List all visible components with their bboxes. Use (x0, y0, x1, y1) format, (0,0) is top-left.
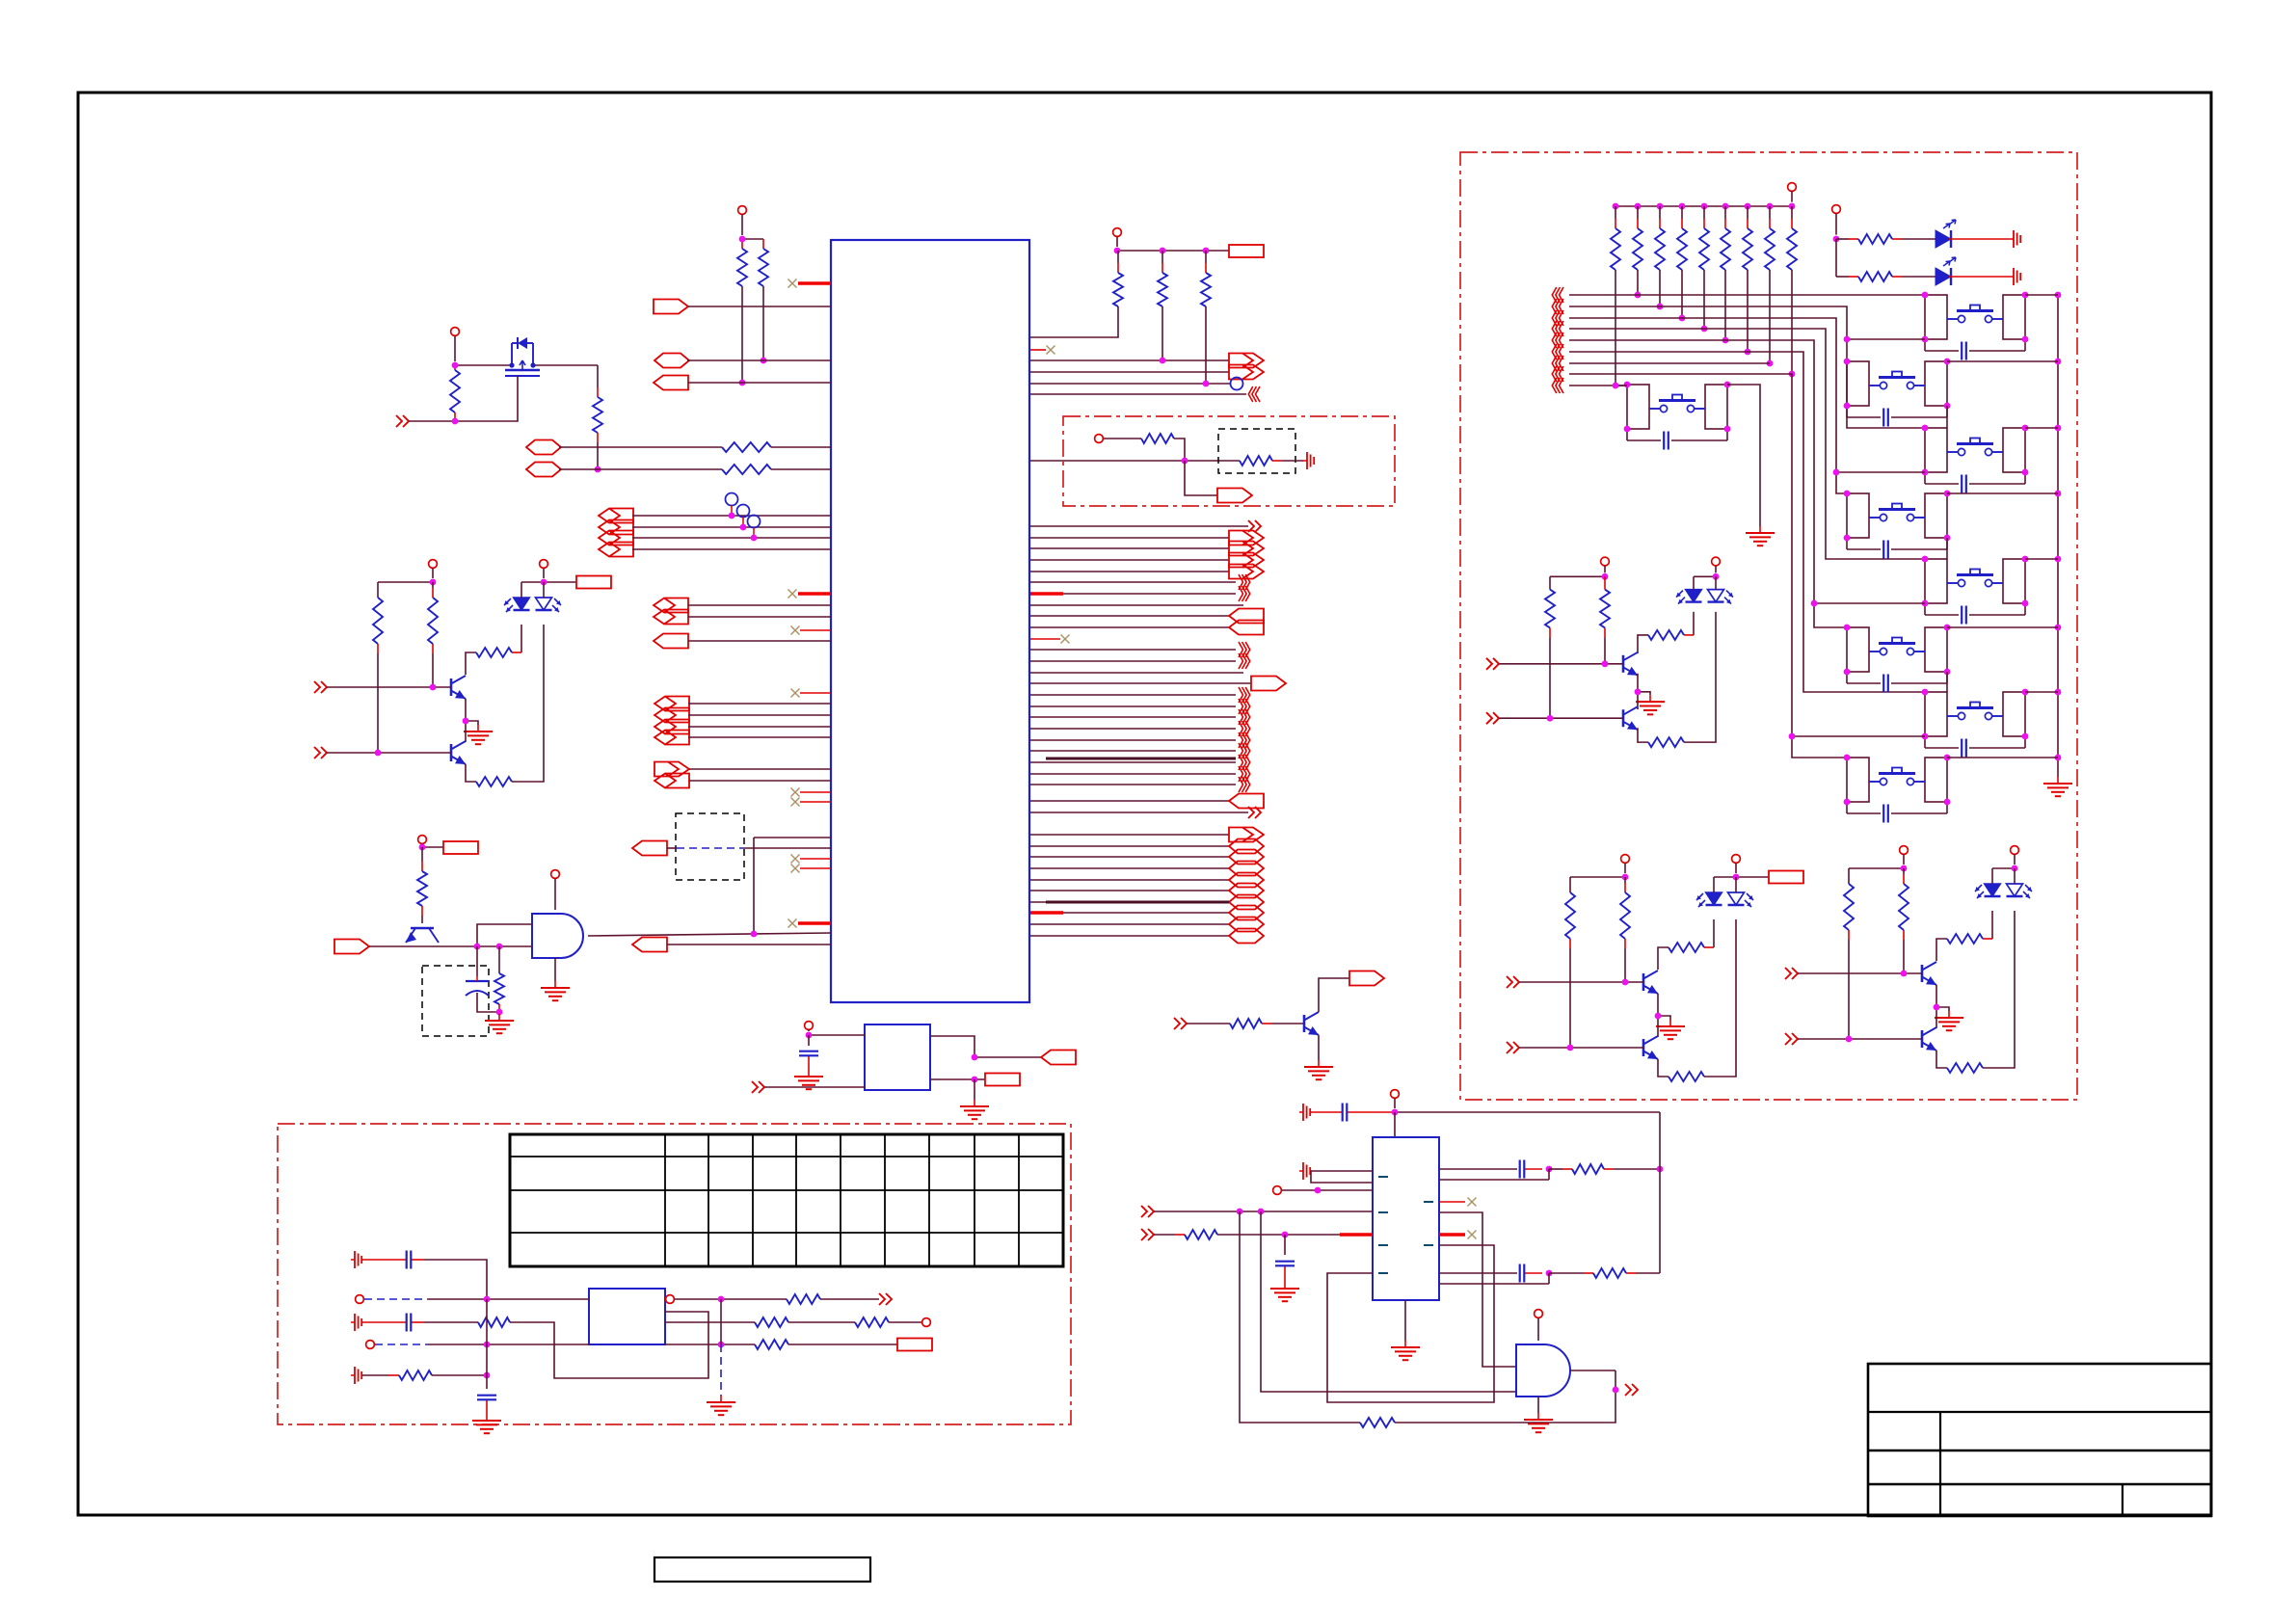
connector J27 (1229, 553, 1264, 568)
ground GND3 (1656, 1020, 1685, 1039)
wire row535 (632, 515, 831, 517)
resistor R15 (1565, 892, 1575, 1048)
resistor R28 (1141, 434, 1174, 443)
wire row374r (1030, 359, 1229, 361)
wire drv c2 (465, 721, 467, 742)
pin stub thick NC (798, 592, 831, 595)
connector J34 (1229, 839, 1264, 854)
wire rcol3 (1205, 306, 1207, 384)
wire drv emit1 (1658, 994, 1670, 1020)
no-connect X (1061, 635, 1070, 644)
wire r698 (1030, 672, 1243, 674)
connector J38 (1229, 884, 1264, 898)
wire mute a (1104, 438, 1141, 439)
wire drv left col (1549, 576, 1551, 589)
wire gate2 gnd (1537, 1397, 1539, 1413)
ground GND13 (1391, 1341, 1420, 1360)
ground GND1 (464, 725, 493, 744)
capacitor C2 (362, 1251, 424, 1269)
wire cell-cap link (1847, 802, 1947, 813)
AND gate U2 (1516, 1344, 1570, 1397)
capacitor C7 (1520, 1160, 1542, 1179)
wire r901 (1030, 867, 1229, 869)
capacitor C6 (1275, 1262, 1295, 1282)
wire drv left col (1569, 877, 1571, 892)
wire G in-top (809, 1034, 865, 1036)
pin stub NC (800, 858, 831, 860)
connector J24 (1217, 489, 1252, 503)
bus-entry B21 (1552, 356, 1563, 371)
table connector pinout (510, 1134, 1063, 1266)
wire m busrow8 (1569, 374, 1847, 758)
ground GND14 (1524, 1413, 1553, 1432)
wire m busrow9 (1569, 385, 1627, 386)
resistor R46 (1721, 206, 1730, 270)
wire drv col seg (466, 652, 476, 675)
wire gate out (588, 933, 831, 936)
ground AGND5 (1299, 1104, 1310, 1121)
no-connect X (791, 798, 800, 807)
resistor R40 (1360, 1418, 1395, 1427)
transistor Q2 (451, 741, 466, 764)
connector J18 (654, 774, 689, 788)
wire drv top-l (378, 581, 433, 583)
junction drv in (1846, 971, 1908, 1043)
resistor R38 (1549, 1164, 1660, 1174)
wire rcol1 (1030, 306, 1118, 337)
port P5 (1486, 712, 1499, 724)
bus-entry B17 (1552, 310, 1563, 326)
junction m bus (1613, 203, 1796, 210)
wire r639 (1030, 615, 1229, 617)
wire m busrow6 (1569, 352, 1925, 692)
ground GND9 (472, 1414, 501, 1433)
junction dots cell (1922, 425, 2029, 476)
wire HD (428, 1344, 589, 1345)
junction dots cell (1844, 491, 1951, 542)
stub circle (731, 506, 733, 517)
wire pin row 318 (688, 306, 831, 307)
connector J30 (1229, 621, 1264, 635)
connector J33 (1229, 828, 1264, 842)
wire row487b (771, 468, 831, 470)
bus-entry B18 (1552, 321, 1563, 336)
pin stub thick NC (798, 921, 831, 924)
connector J44 (1349, 971, 1384, 986)
wire m busrow4 (1569, 329, 1925, 559)
pin stub NC (800, 692, 831, 694)
wire S0 row link (1615, 385, 1627, 386)
net-label NL5 (985, 1074, 1020, 1086)
wire row765 (688, 736, 831, 738)
wire cell-cap link (1925, 603, 2025, 615)
no-connect X (791, 865, 800, 873)
ground AGND1 (1303, 452, 1314, 469)
wire r959 (1030, 923, 1229, 925)
DNP dashed box (676, 813, 744, 880)
wire S0 gnd link (1727, 385, 1760, 526)
wire mled v (1835, 239, 1837, 277)
wire cell-cap link (1847, 672, 1947, 683)
port P11 (1248, 807, 1261, 818)
port P7 (1507, 1042, 1519, 1053)
wire led2 top (2014, 868, 2016, 884)
title block (1868, 1364, 2211, 1516)
wire led1 top (521, 582, 522, 598)
wire G out2 (930, 1078, 985, 1080)
no-connect X (791, 855, 800, 864)
wire drv top-r (521, 581, 544, 583)
wire E in (369, 945, 532, 947)
wire drv in1 (1499, 663, 1623, 665)
wire r947 (1030, 912, 1229, 914)
pin stub thick (1340, 1233, 1373, 1236)
pin stub NC (800, 867, 831, 869)
junction drv in (1567, 979, 1629, 1051)
bus-entry B7 (1239, 699, 1250, 714)
wire I in1 (1154, 1211, 1373, 1212)
resistor R29 (1240, 456, 1303, 466)
transistor Q6 (1643, 1036, 1658, 1059)
resistor R34 (855, 1317, 889, 1327)
resistor R49 (1787, 206, 1797, 270)
wire drv lbl (1736, 876, 1769, 878)
ground GND10 (707, 1396, 735, 1415)
wire drv col seg (1638, 635, 1648, 653)
connector J25 (1229, 531, 1264, 545)
net-label NL2 (1769, 871, 1803, 884)
wire mled1 (1949, 238, 2010, 240)
wire drv in2 (327, 752, 451, 754)
wire J coll (1319, 978, 1349, 1012)
wire r569 (1030, 547, 1229, 549)
bus-entry B5 (1239, 653, 1250, 669)
resistor R48 (1765, 206, 1775, 270)
key cell K1 (1925, 295, 2025, 339)
wire r971 (1030, 935, 1229, 937)
resistor R44 (1677, 206, 1687, 270)
resistor R47 (1743, 206, 1752, 270)
wire I g2 (1311, 1171, 1373, 1183)
wire H r1b (820, 1298, 879, 1300)
connector J21 (632, 938, 667, 952)
wire G in-bot (764, 1086, 865, 1088)
wire riser 782 (754, 838, 831, 935)
wire pin row 397 (688, 382, 831, 384)
wire I vc (1261, 1211, 1516, 1392)
connector J31 (1251, 677, 1286, 691)
bus-entry B16 (1552, 299, 1563, 314)
connector J20 (334, 940, 369, 954)
wire row665 (688, 640, 831, 642)
wire HD dashed (375, 1344, 428, 1345)
wire led1 bot (1991, 911, 1993, 939)
power VCC18 (1832, 205, 1841, 235)
capacitor C9 (1962, 342, 1966, 360)
junction dots cell (1624, 382, 1731, 433)
junction dots cell (1844, 359, 1951, 410)
resistor R36 (1230, 1019, 1304, 1028)
pin stub thick (1030, 592, 1063, 595)
switch SW3 (1947, 570, 2003, 587)
resistor R51 (1836, 272, 1936, 281)
wire drv col seg (1936, 939, 1947, 961)
wire I capstub (1284, 1235, 1286, 1255)
net-label NL1 (576, 576, 611, 589)
wire cell-cap link (1847, 538, 1947, 549)
ground GND5 (485, 1014, 514, 1033)
transistor Q9 (1304, 1012, 1319, 1035)
key cell K6 (1847, 493, 1947, 538)
resistor R39 (1549, 1268, 1660, 1278)
resistor R8 (428, 582, 438, 687)
power VCC2 (451, 328, 460, 361)
pin stub NC (1030, 349, 1046, 351)
wire row558 (632, 537, 831, 539)
bus-entry B13 (1239, 766, 1250, 782)
bus-entry B11 (1239, 743, 1250, 758)
bus-entry B10 (1239, 732, 1250, 748)
connector J15 (654, 720, 689, 734)
wire drv top-l (1550, 575, 1605, 577)
wire I r1 (1439, 1168, 1517, 1170)
wire led2 top (1715, 576, 1717, 589)
wire E gnd stub (554, 958, 556, 981)
wire m cell-rail links (1947, 295, 2058, 758)
wire drv emit1 (466, 699, 478, 725)
switch SW9 (1649, 395, 1705, 412)
LED D6 (1936, 257, 1956, 285)
capacitor C5 (1311, 1104, 1395, 1122)
wire H r3b (788, 1344, 897, 1345)
wire row798 (689, 768, 831, 770)
power VCC6 (1712, 557, 1721, 572)
junction I in1 (1237, 1209, 1265, 1215)
wire row570 (632, 548, 831, 550)
transistor Q3 (1623, 652, 1638, 676)
wire m chain links (1792, 339, 1947, 736)
wire row880 b (743, 847, 831, 849)
junction dots cell (1922, 292, 2029, 343)
pin stub NC (1030, 638, 1060, 640)
wire I r2 (1439, 1212, 1516, 1367)
wire drv to led2 (1704, 919, 1736, 1077)
wire m rail (2057, 295, 2059, 777)
ground AGND2 (351, 1251, 361, 1268)
no-connect X (791, 689, 800, 698)
wire H r2c (889, 1321, 921, 1323)
wire row487a (559, 468, 722, 470)
wire cell-cap link (1847, 406, 1947, 417)
wire J emit (1318, 1035, 1320, 1060)
connector J35 (1229, 850, 1264, 865)
wire r604 (1030, 581, 1236, 583)
pin stub NC (800, 801, 831, 803)
ground GND11 (1304, 1060, 1333, 1079)
capacitor C11 (1962, 606, 1966, 625)
revision box (654, 1557, 870, 1582)
no-connect X (1468, 1198, 1477, 1207)
LED D5 (1936, 220, 1956, 248)
net-label NL6 (897, 1339, 932, 1351)
wire row742 (688, 714, 831, 716)
switch SW4 (1947, 703, 2003, 720)
wire r733 (1030, 705, 1236, 707)
pin circle (1273, 1186, 1282, 1195)
port P17 (1625, 1384, 1638, 1396)
capacitor C4 (477, 1396, 496, 1414)
connector J6 (599, 509, 633, 523)
connector J3 (654, 376, 688, 390)
resistor R32 (787, 1294, 820, 1304)
key cell K7 (1847, 627, 1947, 672)
connector J37 (1229, 873, 1264, 888)
connector J10 (654, 599, 688, 613)
ground GND12 (1270, 1282, 1299, 1301)
stub circle (753, 528, 755, 539)
connector J11 (654, 610, 688, 625)
pin stub thick (1439, 1233, 1465, 1236)
junction m rail (2055, 292, 2062, 761)
junction drv vcc (1622, 874, 1740, 881)
resistor R50 (1836, 234, 1936, 244)
wire pullup col1 (741, 286, 743, 383)
wire G cap stub (808, 1035, 810, 1046)
resistor R4 (593, 365, 602, 469)
wire drv top-l (1570, 876, 1625, 878)
resistor R27 (1201, 251, 1211, 306)
wire r779 (1030, 750, 1236, 752)
wire drv in2 (1499, 717, 1623, 719)
wire drv left col (377, 582, 379, 598)
IC U4 audio (1373, 1137, 1439, 1300)
connector J28 (1229, 565, 1264, 579)
port P12 (752, 1081, 764, 1093)
ground GND15 (1746, 526, 1775, 545)
ground GND8 (960, 1100, 989, 1119)
wire pin row 374 (687, 359, 831, 361)
wire HC a (424, 1321, 478, 1323)
port P15 (1141, 1206, 1154, 1217)
power VCC11 (418, 836, 427, 844)
wire m busrow5 (1569, 340, 1847, 627)
junction m cols (1635, 292, 1796, 378)
bus-entry B12 (1239, 755, 1250, 770)
option box dash-dot (1063, 416, 1395, 506)
wire row880 a (667, 847, 677, 849)
connector J19 (632, 841, 667, 856)
wire r866 (1030, 834, 1229, 836)
ground GND16 (2043, 777, 2072, 796)
wire led1 bot (521, 625, 522, 652)
no-connect X (788, 279, 797, 288)
ground AGND4 (351, 1367, 361, 1384)
connector J4 (526, 440, 561, 455)
wire led1 top (1693, 576, 1695, 589)
wire I vb (1395, 1390, 1615, 1423)
wire row730 (688, 703, 831, 705)
wire rcol2 (1161, 306, 1163, 360)
wire E cap branch (476, 946, 478, 976)
resistor R6 (722, 465, 771, 474)
transistor Q PNP (406, 928, 439, 943)
pin circle (366, 1341, 375, 1349)
DNP dashed box E (422, 966, 489, 1036)
wire mute c (1185, 461, 1217, 495)
wire cell-cap link (1925, 736, 2025, 748)
option box dash-dot H (278, 1124, 1071, 1424)
resistor R14 (1648, 737, 1684, 747)
keyboard box dash-dot (1460, 152, 2077, 1100)
resistor R31 (362, 1370, 432, 1380)
wire drv in1 (1519, 981, 1643, 983)
connector J29 (1229, 609, 1264, 624)
capacitor C13 (1883, 409, 1888, 427)
switch SW7 (1869, 638, 1925, 655)
resistor R11 (1545, 590, 1555, 719)
wire I r3 (1327, 1245, 1494, 1402)
port P13 (879, 1293, 892, 1305)
resistor R41 (1611, 206, 1620, 270)
wire lblE (422, 846, 443, 848)
wire led1 top (1713, 877, 1715, 892)
switch SW8 (1869, 768, 1925, 785)
wire H r2b (788, 1321, 855, 1323)
resistor R25 (1113, 251, 1123, 306)
connector J41 (1229, 918, 1264, 932)
power VCC5 (1601, 557, 1610, 572)
net-label NL4 (1229, 245, 1264, 257)
no-connect X (791, 626, 800, 635)
wire G out1 (930, 1036, 1041, 1057)
wire I in2 (1217, 1234, 1373, 1236)
wire I r1b (1439, 1169, 1549, 1180)
resistor R22 (1947, 1063, 1983, 1073)
resistor R18 (1669, 1072, 1704, 1081)
wire drv to led2 (512, 625, 544, 782)
resistor R21 (1947, 934, 1992, 944)
LED D1 (504, 598, 561, 612)
wire m busrow2 (1569, 306, 1925, 428)
wire drv emit2 (1658, 1059, 1669, 1077)
wire m col drops (1615, 270, 1792, 386)
bus-entry B1 (1248, 386, 1260, 402)
capacitor C14 (1883, 541, 1888, 559)
key cell K9 (1627, 385, 1727, 429)
wire H r1a (675, 1298, 787, 1300)
transistor Q8 (1922, 1027, 1936, 1051)
resistor R1 (737, 239, 747, 286)
resistor R7 (373, 598, 383, 753)
connector J12 (654, 634, 688, 649)
wire drv top-r (1992, 867, 2015, 869)
pin stub thick NC (798, 281, 831, 284)
resistor R9 (476, 648, 521, 657)
wire led2 top (543, 582, 545, 598)
connector J14 (654, 708, 689, 723)
wire row409r (1030, 393, 1246, 395)
wire r744 (1030, 716, 1236, 718)
no-connect X (788, 590, 797, 599)
pin circle (1095, 435, 1104, 443)
resistor R2 (759, 239, 768, 286)
wire r558 (1030, 537, 1229, 539)
connector J40 (1229, 906, 1264, 920)
bus-entry B19 (1552, 333, 1563, 348)
wire vcc bus (742, 238, 763, 240)
wire r616 (1063, 593, 1236, 595)
wire I vccstub (1394, 1112, 1396, 1137)
